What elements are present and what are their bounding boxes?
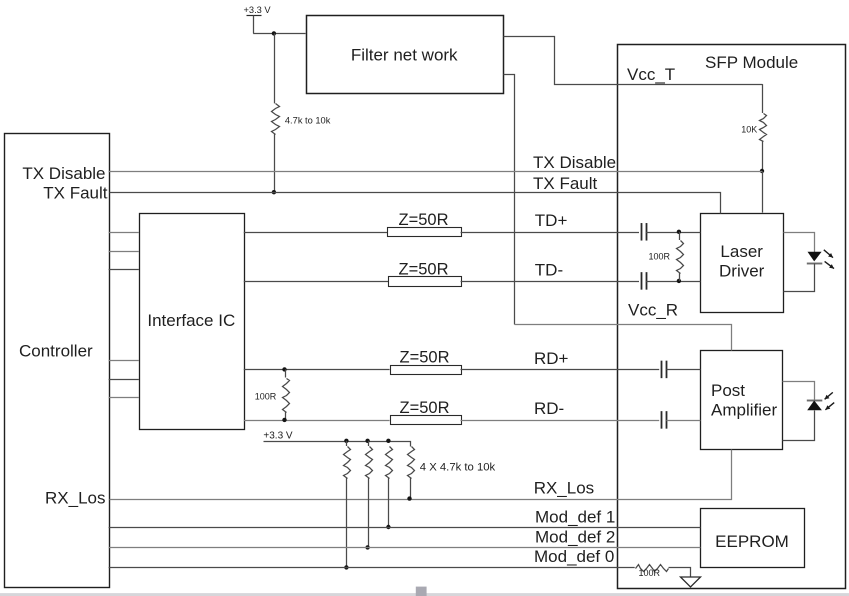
svg-text:RX_Los: RX_Los (45, 489, 105, 508)
wire filter output to Vcc_R feed (504, 75, 515, 325)
wire controller-IC bus stub 3 (109, 269, 139, 271)
resistor R6 100R (RD termination) (255, 369, 290, 420)
net label TD+ (535, 211, 568, 230)
wire +3.3V to filter network input (253, 33, 305, 35)
junction R11 / Mod_def 1 (386, 525, 390, 529)
power +3.3V top supply label (244, 5, 272, 15)
wire RD- from interface IC (244, 420, 390, 422)
svg-text:Post: Post (711, 381, 745, 400)
wire RX_Los net (110, 450, 732, 500)
power +3.3V bottom supply label (263, 430, 293, 441)
resistor R12 4.7k-10k (RX_Los pull-up) (408, 447, 415, 499)
svg-text:4 X 4.7k to 10k: 4 X 4.7k to 10k (420, 461, 496, 473)
resistor R11 4.7k-10k (Mod_def 1 pull-up) (386, 447, 393, 528)
svg-text:Z=50R: Z=50R (400, 399, 450, 417)
resistor R1 4.7k to 10k (TX Fault pull-up) (272, 104, 331, 135)
net label Mod_def 1 (535, 508, 615, 527)
net label Vcc_R (628, 301, 678, 320)
pin label TX Fault (controller) (43, 184, 108, 203)
svg-text:Vcc_R: Vcc_R (628, 301, 678, 320)
wire TD- from interface IC (244, 281, 388, 283)
svg-text:Mod_def 2: Mod_def 2 (535, 528, 615, 547)
wire TD- to coupling cap (461, 281, 639, 283)
block label Controller (19, 342, 93, 361)
resistor R9 4.7k-10k (Mod_def 0 pull-up) (344, 441, 351, 568)
wire controller-IC bus stub 2 (109, 251, 139, 253)
net label TD- (535, 261, 563, 280)
svg-text:Vcc_T: Vcc_T (627, 65, 675, 84)
wire post amplifier to photodiode cathode (783, 382, 815, 400)
svg-text:EEPROM: EEPROM (715, 532, 789, 551)
net label RD+ (534, 349, 569, 368)
junction rail / R10 (365, 439, 369, 443)
wire C3 to post amplifier RD+ pin (666, 369, 700, 371)
wire C4 to post amplifier RD- pin (666, 420, 700, 422)
net label TX Disable (SFP side) (533, 153, 616, 172)
svg-text:100R: 100R (648, 252, 670, 262)
laser driver block U2 (701, 214, 784, 313)
photodiode D2 incident light arrows (825, 392, 835, 409)
svg-text:Mod_def 0: Mod_def 0 (534, 547, 614, 566)
junction TD+ / R5 (677, 230, 681, 234)
wire photodiode anode back to post amplifier (783, 411, 815, 441)
wire +3.3V node down to R1 (274, 33, 276, 103)
svg-text:TD+: TD+ (535, 211, 568, 230)
wire RD+ to coupling cap (461, 369, 660, 371)
wire +3.3V pull-up rail (264, 442, 411, 447)
junction RD+ / R6 (282, 367, 286, 371)
svg-text:RD-: RD- (534, 399, 564, 418)
wire controller-IC bus stub 4 (109, 360, 139, 362)
SFP Module title label (705, 53, 798, 72)
wire R13 to ground (669, 568, 691, 578)
svg-text:SFP Module: SFP Module (705, 53, 798, 72)
LED D1 emission arrows (824, 250, 834, 269)
net label TX Fault (SFP side) (533, 174, 598, 193)
net label Mod_def 2 (535, 528, 615, 547)
window scrollbar track (0, 593, 849, 596)
net label RX_Los (SFP side) (534, 479, 594, 498)
svg-text:Controller: Controller (19, 342, 93, 361)
svg-text:TX Fault: TX Fault (533, 174, 598, 193)
wire Mod_def 0 net (109, 567, 635, 569)
svg-text:Filter net work: Filter net work (351, 46, 458, 65)
wire R1 to TX Fault line (274, 134, 276, 192)
svg-text:Z=50R: Z=50R (399, 260, 449, 278)
wire filter output to Vcc_T rail (504, 37, 763, 85)
svg-text:Z=50R: Z=50R (400, 349, 450, 367)
resistor R3 Z=50R (TD+) (388, 211, 462, 236)
svg-text:Laser: Laser (720, 242, 763, 261)
wire Vcc_R rail to post amplifier (515, 325, 732, 351)
junction rail / R9 (344, 439, 348, 443)
SFP module outline box (618, 45, 846, 589)
wire RD+ from interface IC (244, 369, 390, 371)
wire controller-IC bus stub 6 (109, 397, 139, 399)
wire +3.3V lead down (253, 16, 255, 34)
wire laser driver output to LED anode (784, 233, 815, 253)
wire TX Fault net (110, 193, 721, 214)
junction TD- / R5 (677, 279, 681, 283)
junction R9 / Mod_def 0 (344, 565, 348, 569)
wire TX Disable net (109, 171, 762, 173)
ground symbol (681, 577, 701, 587)
junction rail / R11 (386, 439, 390, 443)
wire C1 to laser driver TD+ pin (646, 232, 701, 234)
interface IC block U1 (140, 214, 245, 430)
svg-text:+3.3 V: +3.3 V (244, 5, 272, 15)
resistor R7 Z=50R (RD+) (391, 349, 462, 375)
wire LED cathode back to laser driver (784, 264, 815, 292)
svg-text:RX_Los: RX_Los (534, 479, 594, 498)
capacitor C3 (RD+ AC coupling) (662, 361, 667, 379)
wire Vcc_T to R2 (762, 84, 764, 113)
photodiode D2 (807, 401, 823, 411)
pin label TX Disable (controller) (22, 164, 105, 183)
svg-text:TD-: TD- (535, 261, 563, 280)
wire controller-IC bus stub 1 (109, 232, 139, 234)
capacitor C2 (TD- AC coupling) (642, 272, 647, 290)
wire R2 to TX Disable line (762, 141, 764, 171)
resistor R13 100R (Mod_def 0) (636, 565, 669, 578)
wire TD+ to coupling cap (461, 232, 639, 234)
junction R2 / TX Disable (760, 169, 764, 173)
resistor R2 10K (TX Disable pull-up) (741, 114, 766, 142)
pin label RX_Los (controller) (45, 489, 105, 508)
filter network block U_filter (307, 16, 504, 94)
junction R1 / TX Fault (272, 190, 276, 194)
svg-text:Interface IC: Interface IC (147, 311, 235, 330)
svg-text:Z=50R: Z=50R (399, 211, 449, 229)
svg-text:TX Fault: TX Fault (43, 184, 108, 203)
svg-text:Mod_def 1: Mod_def 1 (535, 508, 615, 527)
resistor R10 4.7k-10k (Mod_def 2 pull-up) (366, 441, 373, 548)
svg-text:Driver: Driver (719, 262, 765, 281)
svg-text:4.7k to 10k: 4.7k to 10k (285, 115, 331, 125)
junction R10 / Mod_def 2 (365, 545, 369, 549)
wire Mod_def 2 net (109, 547, 701, 549)
net label Mod_def 0 (534, 547, 614, 566)
svg-text:TX Disable: TX Disable (22, 164, 105, 183)
LED D1 laser diode (807, 252, 823, 264)
svg-text:TX Disable: TX Disable (533, 153, 616, 172)
wire C2 to laser driver TD- pin (646, 281, 701, 283)
net label Vcc_T (627, 65, 675, 84)
wire controller-IC bus stub 5 (109, 379, 139, 381)
svg-text:100R: 100R (639, 568, 661, 578)
controller block box (5, 134, 110, 588)
wire TD+ from interface IC (244, 232, 387, 234)
junction node +3.3V / pull-up (272, 31, 276, 35)
junction R12 / RX_Los (407, 496, 411, 500)
window scrollbar thumb (416, 587, 427, 596)
wire TX Disable node to laser driver top pin (762, 171, 764, 213)
value label 4 X 4.7k to 10k (420, 461, 496, 473)
svg-text:100R: 100R (255, 392, 277, 402)
post amplifier block U3 (701, 351, 783, 450)
wire Mod_def 1 net (109, 527, 701, 529)
EEPROM block U4 (701, 509, 805, 568)
resistor R5 100R (TD termination) (648, 232, 683, 281)
net label RD- (534, 399, 564, 418)
svg-text:RD+: RD+ (534, 349, 569, 368)
svg-text:10K: 10K (741, 125, 757, 135)
resistor R4 Z=50R (TD-) (389, 260, 462, 286)
capacitor C4 (RD- AC coupling) (662, 411, 667, 429)
resistor R8 Z=50R (RD-) (391, 399, 462, 425)
junction RD- / R6 (282, 418, 286, 422)
svg-text:+3.3 V: +3.3 V (263, 430, 293, 441)
svg-text:Amplifier: Amplifier (711, 401, 777, 420)
capacitor C1 (TD+ AC coupling) (642, 223, 647, 241)
wire RD- to coupling cap (461, 420, 660, 422)
